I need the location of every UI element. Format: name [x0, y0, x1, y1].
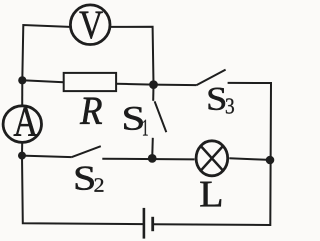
voltmeter V circle [70, 5, 110, 45]
node dot top-mid [149, 80, 158, 89]
lamp L circle [196, 141, 228, 176]
resistor R [64, 73, 116, 91]
node dot mid-left [18, 152, 26, 160]
wire top-left segment with corner [22, 25, 69, 80]
node dot mid-right [266, 156, 275, 165]
label S2n (2) [94, 178, 103, 191]
node dot top-left [18, 76, 26, 84]
wire S3 to top-right corner, right vertical, bottom-right [154, 83, 271, 225]
battery cell short plate [151, 217, 154, 231]
switch S3 [196, 70, 225, 86]
wire ammeter to node [21, 143, 23, 156]
label S3n (3) [226, 98, 234, 113]
battery cell long plate [143, 208, 146, 239]
wire mid-left node to S2 [22, 156, 72, 158]
label S2S (S) [76, 166, 94, 189]
wire lamp to right node [229, 158, 270, 160]
wire node to S3 [154, 84, 197, 87]
label L (L) [200, 182, 221, 207]
label A (A) [14, 108, 38, 136]
wire resistor to node [116, 83, 153, 86]
label S1n (1) [143, 120, 148, 136]
switch S1 [152, 85, 166, 159]
wire left vertical to ammeter [21, 80, 23, 105]
label V (V) [80, 12, 103, 39]
node dot mid (S1 bottom) [148, 154, 157, 163]
label R (R) [80, 98, 102, 124]
wire left vertical lower with bottom-left corner [22, 156, 144, 225]
wire S2 to lamp [102, 158, 194, 161]
wire node to resistor [22, 80, 63, 82]
switch S2 [72, 146, 101, 157]
label S1S (S) [124, 107, 142, 130]
wire top-right segment with corner down to node [111, 27, 154, 85]
ammeter A circle [3, 106, 41, 143]
label S3S (S) [209, 88, 225, 110]
